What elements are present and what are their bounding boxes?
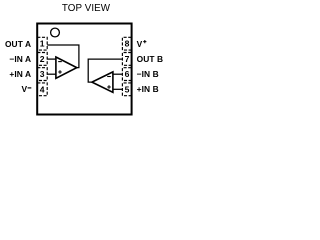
wire pin6 to op-amp B inverting input (113, 73, 123, 75)
IC package U1 (DIP-8 outline) (37, 24, 131, 115)
op-amp B non-inverting input sign (+) (107, 85, 111, 89)
svg-text:8: 8 (125, 39, 130, 49)
svg-text:+IN B: +IN B (137, 84, 159, 94)
svg-text:1: 1 (40, 39, 45, 49)
op-amp A inverting input sign (-) (58, 61, 62, 63)
op-amp A non-inverting input sign (+) (58, 70, 62, 74)
op-amp B inverting input sign (-) (107, 76, 111, 78)
svg-text:7: 7 (125, 54, 130, 64)
pin 8 box (122, 37, 131, 50)
svg-text:3: 3 (40, 69, 45, 79)
svg-text:OUT A: OUT A (5, 39, 31, 49)
svg-text:−IN B: −IN B (137, 69, 159, 79)
op-amp A triangle (56, 57, 77, 78)
pin 7 box (122, 53, 131, 66)
op-amp B triangle (92, 72, 113, 92)
svg-text:4: 4 (40, 84, 45, 94)
pin 4 box (37, 83, 47, 96)
wire pin2 to op-amp A inverting input (47, 58, 56, 60)
pin 5 box (122, 83, 131, 96)
pin 1 indicator circle (51, 28, 60, 37)
wire op-amp A output loop to pin1 (47, 45, 79, 68)
svg-text:TOP VIEW: TOP VIEW (62, 3, 111, 14)
wire pin3 to op-amp A non-inverting input (47, 73, 56, 75)
pin 2 box (37, 53, 47, 66)
svg-text:−IN A: −IN A (9, 54, 31, 64)
svg-text:V: V (22, 84, 28, 94)
wire pin5 to op-amp B non-inverting input (113, 88, 123, 90)
wire op-amp B output loop to pin7 (88, 59, 122, 82)
pin 6 box (122, 68, 131, 81)
svg-text:6: 6 (125, 69, 130, 79)
svg-text:OUT B: OUT B (137, 54, 164, 64)
svg-text:V: V (137, 39, 143, 49)
svg-text:+IN A: +IN A (9, 69, 31, 79)
pin 3 box (37, 68, 47, 81)
svg-text:2: 2 (40, 54, 45, 64)
pin 1 box (37, 37, 47, 50)
svg-text:5: 5 (125, 84, 130, 94)
